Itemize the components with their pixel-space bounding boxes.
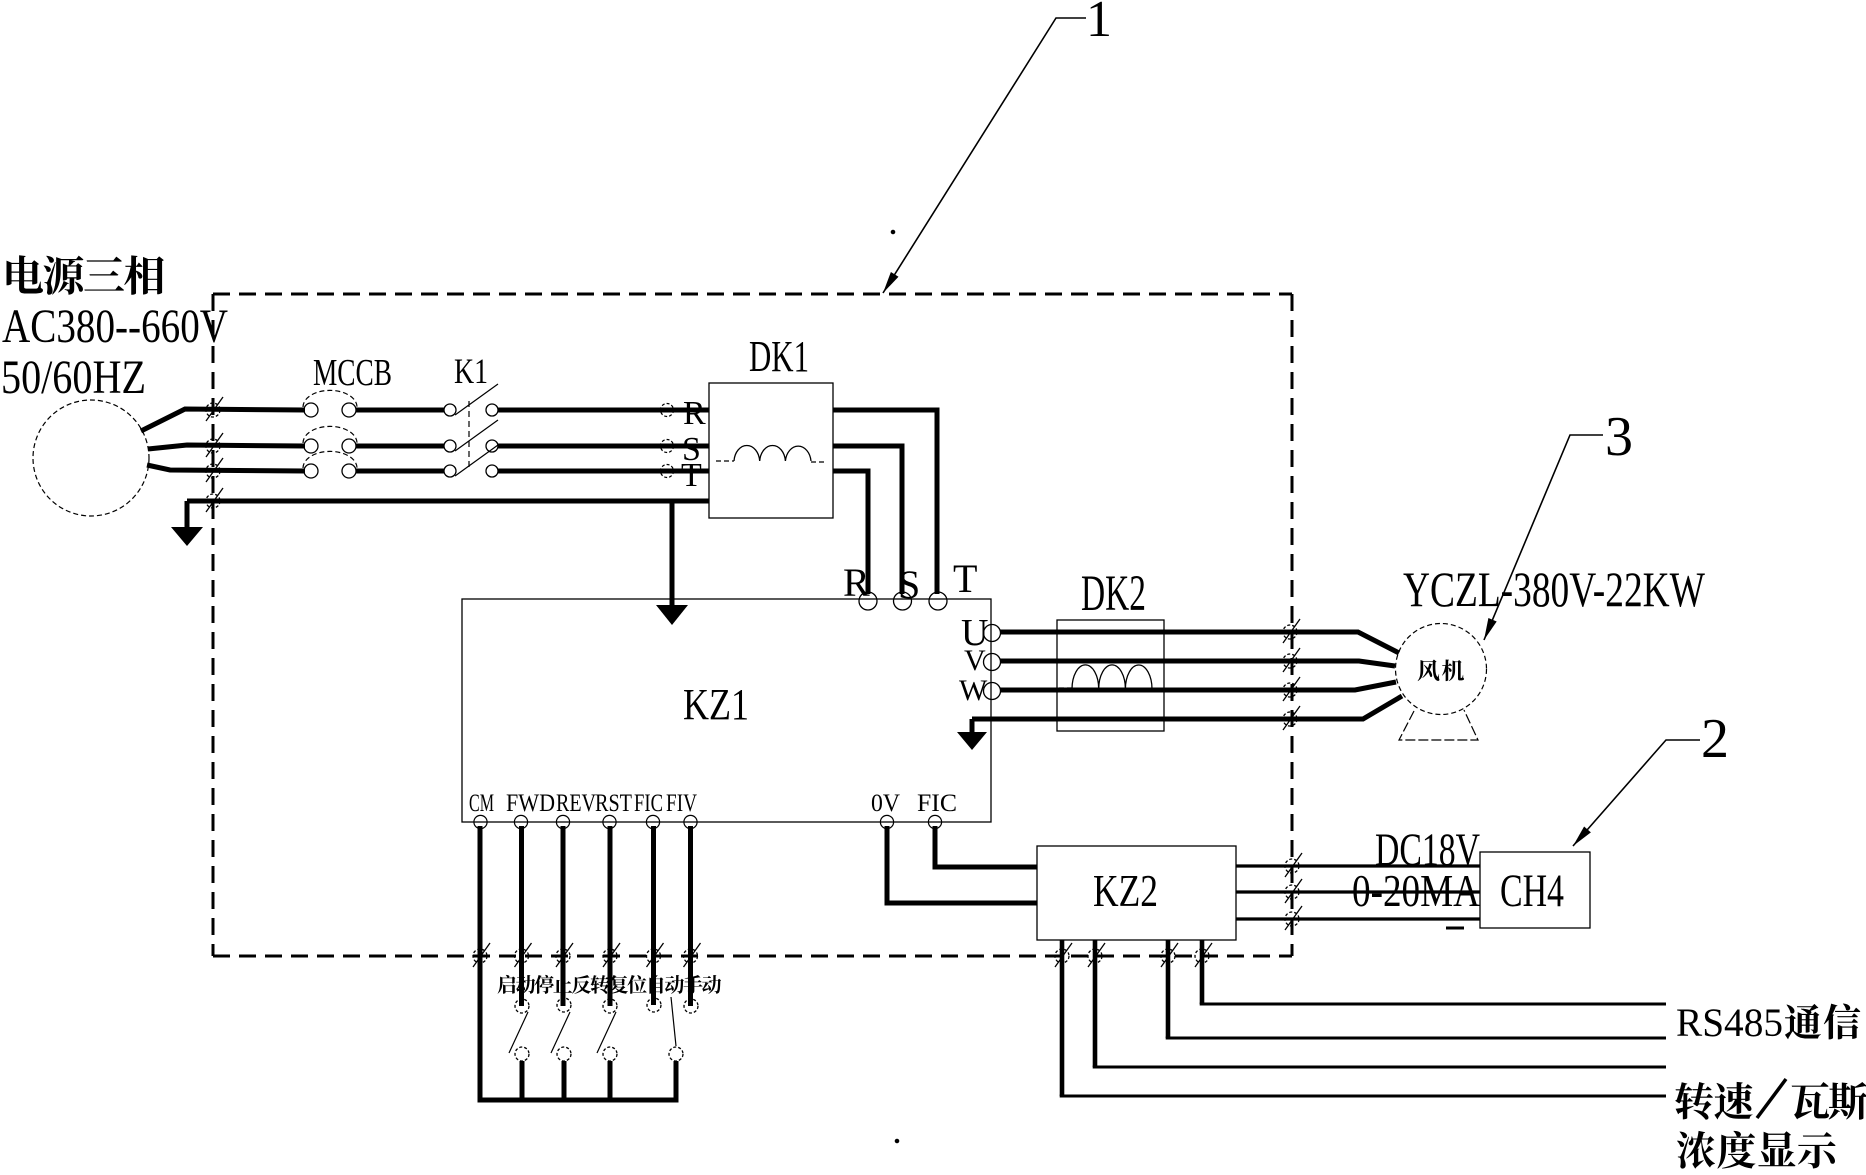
KZ1 terminal circle R (859, 592, 877, 610)
wire U from KZ1 to fan via DK2 (1000, 632, 1399, 653)
DK2 box (1057, 620, 1164, 731)
cable connector right edge, CH4 wire 1 (1285, 853, 1302, 877)
KZ1 terminal circle FWD (514, 815, 527, 828)
K1 mechanical linkage dashed line (468, 401, 470, 468)
callout leader 1 (883, 18, 1086, 293)
svg-text:KZ2: KZ2 (1093, 865, 1158, 916)
cable connector bottom edge, KZ2 wire 3 (1161, 943, 1178, 967)
DK1 input terminal circle S (661, 440, 674, 453)
wire S source to MCCB (148, 445, 305, 449)
svg-text:KZ1: KZ1 (683, 680, 749, 729)
wire K1 to DK1 row 2 (498, 444, 709, 449)
KZ1 terminal circle REV (556, 815, 569, 828)
svg-text:AC380--660V: AC380--660V (2, 300, 228, 353)
KZ1 terminal circle CM (474, 815, 487, 828)
svg-text:0V: 0V (871, 790, 900, 817)
svg-text:MCCB: MCCB (313, 352, 392, 394)
wire RST down to button (608, 826, 613, 1006)
cable connector bottom edge, RST (603, 943, 620, 967)
svg-text:R: R (683, 395, 706, 432)
K1 contact pole 1 (444, 384, 498, 416)
wire from reverse button to bus (608, 1061, 613, 1100)
cable connector right edge, PE (1283, 706, 1300, 730)
wire KZ2 to CH4 middle (1236, 890, 1480, 893)
svg-text:S: S (898, 562, 920, 607)
wire CM down to common bus (478, 826, 483, 1100)
speck dot bottom (895, 1139, 899, 1143)
minus tick under 0-20MA (1446, 927, 1464, 930)
KZ1 terminal circle FIV (684, 815, 697, 828)
KZ1 terminal circle S (894, 592, 912, 610)
K1 contact pole 2 (444, 420, 498, 452)
cable connector on enclosure edge, PE (206, 488, 223, 512)
wire FIC from KZ1 to KZ2 (935, 826, 1037, 867)
wire R source to MCCB (141, 409, 305, 431)
common bus wire at bottom (478, 1098, 679, 1103)
three-phase power source circle (33, 400, 149, 516)
wire DK1 output T to KZ1 terminal R-position (833, 471, 868, 594)
dashed enclosure box 1 left edge (212, 294, 215, 956)
wire MCCB to K1 row 3 (356, 469, 444, 474)
wire REV down to button (561, 826, 566, 1006)
svg-text:V: V (964, 644, 986, 677)
cable connector right edge, W (1283, 677, 1300, 701)
ground symbol into KZ1 (656, 501, 688, 625)
label 浓度显示 (1677, 1131, 1836, 1169)
wire K1 to DK1 row 3 (498, 469, 709, 474)
wire V from KZ1 to fan via DK2 (1000, 661, 1395, 666)
svg-text:CM: CM (469, 790, 494, 817)
dashed enclosure box 1 right edge (1291, 294, 1294, 956)
MCCB pole 2 (303, 426, 357, 453)
K1 contact pole 3 (444, 445, 498, 477)
wire DK1 output R to KZ1 terminal T-position (833, 410, 937, 594)
svg-text:K1: K1 (454, 351, 488, 391)
label 风机 inside motor (1418, 659, 1464, 681)
wire FIC down to selector (651, 826, 656, 1005)
cable connector bottom edge, REV (556, 943, 573, 967)
label 转速 (1675, 1082, 1752, 1120)
svg-text:DK1: DK1 (749, 332, 809, 381)
wire from selector to bus (674, 1061, 679, 1100)
text 电源三相 (three-phase supply) (6, 255, 163, 294)
svg-text:R: R (843, 560, 870, 605)
svg-text:T: T (953, 556, 977, 601)
MCCB pole 1 (303, 390, 357, 417)
wire MCCB to K1 row 1 (356, 408, 444, 413)
KZ1 terminal circle V (984, 654, 1001, 671)
svg-text:REV: REV (556, 790, 596, 817)
cable connector bottom edge, KZ2 wire 1 (1055, 943, 1072, 967)
svg-text:3: 3 (1605, 406, 1633, 468)
DK2 inductor winding (1059, 665, 1152, 689)
cable connector right edge, CH4 wire 2 (1285, 879, 1302, 903)
dashed enclosure box 1 top edge (213, 293, 1292, 296)
cable connector bottom edge, KZ2 wire 4 (1195, 943, 1212, 967)
pushbutton 启动 (start) (509, 999, 529, 1061)
MCCB pole 3 (303, 451, 357, 478)
cable connector bottom edge, KZ2 wire 2 (1088, 943, 1105, 967)
cable connector bottom edge, FIV (684, 943, 701, 967)
svg-text:DK2: DK2 (1081, 566, 1146, 622)
cable connector bottom edge, FWD (515, 943, 532, 967)
KZ1 terminal circle U (984, 625, 1001, 642)
wire KZ2 output 2 to right side (1166, 940, 1666, 1038)
DK1 input terminal circle R (661, 404, 674, 417)
pushbutton 停止 (stop) (551, 998, 571, 1061)
svg-text:FIC: FIC (634, 790, 663, 817)
DK1 box (709, 383, 833, 518)
CH4 sensor box (1480, 852, 1590, 928)
cable connector right edge, CH4 wire 3 (1285, 906, 1302, 930)
wire DK1 output S to KZ1 terminal S-position (833, 446, 902, 594)
speck dot top (891, 230, 895, 234)
arrowhead of callout 2 (1573, 827, 1591, 847)
svg-text:CH4: CH4 (1500, 865, 1564, 917)
wire W from KZ1 to fan via DK2 (1000, 682, 1396, 690)
motor stand trapezoid (1399, 710, 1478, 740)
cable connector on enclosure edge, R phase (206, 397, 223, 421)
svg-text:FWD: FWD (506, 790, 555, 817)
wire K1 to DK1 row 1 (498, 408, 709, 413)
cable connector right edge, U (1283, 619, 1300, 643)
callout leader 3 (1484, 435, 1603, 640)
cable connector right edge, V (1283, 648, 1300, 672)
cable connector on enclosure edge, S phase (206, 433, 223, 457)
arrowhead of callout 1 (883, 272, 899, 293)
svg-text:RS485: RS485 (1676, 1000, 1783, 1045)
svg-text:FIC: FIC (917, 790, 957, 817)
dashed enclosure box 1 bottom edge (213, 955, 1292, 958)
svg-text:FIV: FIV (666, 790, 697, 817)
labels 启动 停止 反转 复位 自动 手动 (498, 975, 722, 994)
wire FIV down to selector (688, 826, 693, 1006)
ground/PE wire from source to DK1 (187, 499, 709, 504)
wire from start button to bus (520, 1061, 525, 1100)
KZ1 terminal circle W (984, 683, 1001, 700)
ground symbol at source (171, 501, 203, 546)
wire PE from fan side to ground arrow (972, 696, 1402, 719)
wire KZ2 output 3 to right side (1093, 940, 1666, 1067)
svg-text:T: T (681, 457, 702, 494)
label 瓦斯 (1792, 1082, 1866, 1120)
KZ1 inverter box (462, 599, 991, 822)
svg-text:50/60HZ: 50/60HZ (1, 351, 146, 404)
pushbutton 反转/复位 (597, 999, 617, 1061)
callout leader 2 (1573, 740, 1700, 846)
DK1 inductor winding (716, 445, 824, 462)
wire FWD down to button (519, 826, 524, 1006)
KZ1 terminal circle FIC analog (928, 815, 941, 828)
cable connector on enclosure edge, T phase (206, 458, 223, 482)
wire KZ2 to CH4 top (1236, 864, 1480, 867)
svg-text:RST: RST (595, 790, 632, 817)
fan motor circle 风机 (1396, 624, 1487, 715)
svg-text:1: 1 (1086, 0, 1112, 48)
ground symbol on motor PE wire (957, 719, 987, 750)
cable connector bottom edge, FIC (647, 943, 664, 967)
wire KZ2 to CH4 bottom (1236, 917, 1480, 920)
wire KZ2 output 1 to right side (1200, 940, 1666, 1004)
cable connector bottom edge, CM (473, 943, 490, 967)
wire 0V from KZ1 to KZ2 (887, 826, 1037, 903)
svg-text:W: W (959, 674, 988, 707)
svg-text:2: 2 (1701, 708, 1729, 770)
KZ1 terminal circle FIC (646, 815, 659, 828)
wire KZ2 output 4 to right side (1060, 940, 1666, 1096)
label 通信 (1785, 1003, 1860, 1039)
arrowhead of callout 3 (1484, 618, 1497, 640)
KZ1 terminal circle 0V (880, 815, 893, 828)
DK1 input terminal circle T (661, 465, 674, 478)
selector switch 自动/手动 (647, 997, 698, 1061)
wire T source to MCCB (147, 465, 305, 471)
KZ1 terminal circle T (929, 592, 947, 610)
svg-text:YCZL-380V-22KW: YCZL-380V-22KW (1403, 561, 1706, 617)
wire from stop button to bus (562, 1061, 567, 1100)
svg-text:0-20MA: 0-20MA (1352, 865, 1480, 916)
slash in 转速/瓦斯 (1757, 1079, 1786, 1118)
KZ2 isolation module box (1037, 846, 1236, 940)
KZ1 terminal circle RST (603, 815, 616, 828)
wire MCCB to K1 row 2 (356, 444, 444, 449)
